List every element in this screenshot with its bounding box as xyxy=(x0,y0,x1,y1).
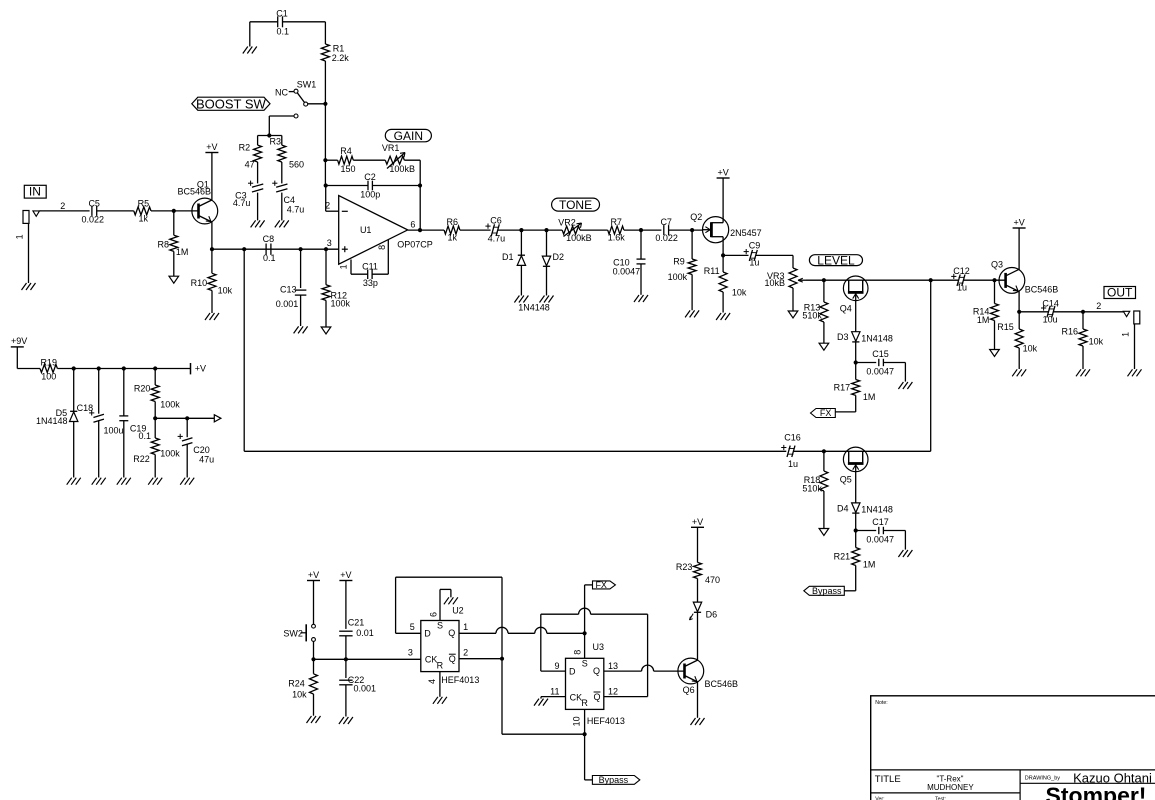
wire U2 R to ground xyxy=(439,672,441,697)
svg-text:1M: 1M xyxy=(176,247,189,257)
svg-text:R5: R5 xyxy=(138,198,150,208)
svg-text:R23: R23 xyxy=(676,562,693,572)
svg-text:Q: Q xyxy=(449,654,456,664)
flag TONE xyxy=(552,198,600,212)
svg-text:1N4148: 1N4148 xyxy=(861,505,893,515)
svg-text:D: D xyxy=(569,666,576,676)
capacitor C5 xyxy=(82,198,105,224)
svg-text:C7: C7 xyxy=(660,217,672,227)
svg-text:0.0047: 0.0047 xyxy=(866,534,894,544)
svg-text:R19: R19 xyxy=(40,357,57,367)
svg-text:1M: 1M xyxy=(863,559,876,569)
ground xyxy=(716,313,730,320)
label HEF4013 xyxy=(587,716,625,726)
wire 9V rail xyxy=(57,368,190,370)
svg-text:Q: Q xyxy=(448,628,455,638)
node R12 junction xyxy=(324,247,328,251)
wire Q1 emitter down xyxy=(211,222,213,249)
wire Q3 emitter down xyxy=(1018,291,1020,311)
ground xyxy=(205,313,219,320)
svg-text:560: 560 xyxy=(289,159,304,169)
wire U3 R stem xyxy=(584,709,586,734)
capacitor C10 xyxy=(613,230,646,295)
svg-text:0.1: 0.1 xyxy=(277,26,290,36)
svg-text:BC546B: BC546B xyxy=(178,186,212,196)
node C17 junction xyxy=(854,528,858,532)
wire R4 to VR1 xyxy=(353,159,385,161)
svg-text:Q3: Q3 xyxy=(991,259,1003,269)
svg-text:0.022: 0.022 xyxy=(82,215,105,225)
svg-text:C9: C9 xyxy=(749,241,761,251)
node Q5 branch junction xyxy=(929,278,933,282)
ground xyxy=(540,296,554,303)
svg-text:R22: R22 xyxy=(133,454,150,464)
svg-text:D3: D3 xyxy=(837,332,849,342)
wire C21 to clock rail xyxy=(345,636,347,660)
svg-text:100k: 100k xyxy=(160,400,180,410)
svg-text:R8: R8 xyxy=(157,239,169,249)
svg-text:0.0047: 0.0047 xyxy=(613,266,641,276)
svg-text:R3: R3 xyxy=(269,137,281,147)
ground xyxy=(1076,369,1090,376)
capacitor C7 xyxy=(655,217,678,243)
node C14 junction xyxy=(1017,310,1021,314)
wire 9V rail left xyxy=(17,368,40,370)
capacitor C14 xyxy=(1019,298,1059,324)
label HEF4013 xyxy=(441,675,479,685)
resistor R2 xyxy=(239,136,262,170)
ground xyxy=(294,326,308,333)
label 1N4148 xyxy=(518,302,550,312)
ground xyxy=(990,350,1000,357)
svg-text:C1: C1 xyxy=(276,9,288,19)
wire Q6 collector to D6 xyxy=(697,613,699,660)
svg-text:C14: C14 xyxy=(1042,298,1059,308)
flag Bypass xyxy=(592,775,639,785)
svg-text:Q5: Q5 xyxy=(840,475,852,485)
capacitor C8 xyxy=(263,234,276,263)
svg-text:10k: 10k xyxy=(1023,343,1038,353)
node C20 junction xyxy=(185,416,189,420)
svg-text:C16: C16 xyxy=(784,432,801,442)
wire U2 S to ground xyxy=(440,589,451,620)
flag GAIN xyxy=(385,129,431,143)
wire R5 to Q1 base xyxy=(151,210,199,212)
svg-text:OUT: OUT xyxy=(1107,285,1133,299)
resistor R19 xyxy=(40,357,57,381)
svg-text:0.1: 0.1 xyxy=(139,431,152,441)
svg-text:10k: 10k xyxy=(732,287,747,297)
svg-text:1M: 1M xyxy=(863,392,876,402)
node C13 junction xyxy=(299,247,303,251)
wire C1 left lead and ground drop xyxy=(250,22,278,47)
svg-text:C8: C8 xyxy=(263,234,275,244)
wire D2 to ground xyxy=(546,266,548,295)
wire R4 node down to C2 node xyxy=(324,160,326,185)
wire Q2 source down xyxy=(722,243,724,255)
svg-text:+V: +V xyxy=(340,570,351,580)
ground xyxy=(514,296,528,303)
resistor R22 xyxy=(133,418,180,477)
node C10 junction xyxy=(639,228,643,232)
diode D5 xyxy=(36,369,78,478)
pin 12 label xyxy=(608,686,618,696)
resistor R20 xyxy=(134,369,180,419)
svg-text:R2: R2 xyxy=(239,143,251,153)
svg-text:33p: 33p xyxy=(363,278,378,288)
node R9 junction xyxy=(690,228,694,232)
wire C6 to VR2 xyxy=(498,229,563,231)
svg-text:Q: Q xyxy=(593,666,600,676)
wire U3 CK to ground xyxy=(541,697,566,699)
pin 13 label xyxy=(608,661,618,671)
svg-text:R: R xyxy=(581,698,588,708)
svg-text:DRAWING_by: DRAWING_by xyxy=(1025,776,1060,782)
resistor R16 xyxy=(1061,312,1103,369)
svg-text:C20: C20 xyxy=(193,445,210,455)
svg-text:Q6: Q6 xyxy=(683,685,695,695)
node emitter junction xyxy=(210,247,214,251)
jack J2 output xyxy=(1120,311,1139,369)
wire U2 Q to FX node xyxy=(459,627,585,633)
resistor R1 xyxy=(321,43,349,63)
potentiometer VR2 xyxy=(558,218,591,244)
svg-text:+V: +V xyxy=(1013,218,1024,228)
svg-text:1N4148: 1N4148 xyxy=(36,416,68,426)
svg-text:10k: 10k xyxy=(1089,337,1104,347)
svg-text:R17: R17 xyxy=(834,383,851,393)
svg-text:C5: C5 xyxy=(88,198,100,208)
capacitor C6 xyxy=(485,216,505,244)
wire SW2 to clock rail xyxy=(313,641,315,659)
wire jack to C5 xyxy=(40,210,90,212)
resistor R18 xyxy=(802,451,828,528)
svg-text:10u: 10u xyxy=(1043,314,1058,324)
wire Q1 collector to +V xyxy=(211,153,213,201)
label Ver xyxy=(875,797,884,800)
power +V xyxy=(1013,218,1026,229)
svg-text:U1: U1 xyxy=(360,225,372,235)
svg-text:47: 47 xyxy=(245,159,255,169)
ground xyxy=(321,327,331,334)
title block frame xyxy=(871,696,1155,800)
svg-text:VR2: VR2 xyxy=(558,218,576,228)
svg-text:0.01: 0.01 xyxy=(356,628,374,638)
capacitor C21 xyxy=(339,618,374,639)
wire opamp output xyxy=(408,229,444,231)
wire R1 to SW1 node xyxy=(324,61,326,104)
ground xyxy=(1128,369,1142,376)
wire Q6 emitter to ground xyxy=(697,682,699,718)
wire C1 to R1 xyxy=(283,22,326,44)
capacitor C19 xyxy=(119,369,151,478)
pin 3 label xyxy=(327,238,332,248)
node C19 junction xyxy=(122,366,126,370)
wire feedback from C8 node xyxy=(244,249,786,451)
svg-text:C17: C17 xyxy=(872,517,889,527)
ground xyxy=(251,220,265,227)
flip-flop U2 xyxy=(421,605,464,671)
wire C9 left xyxy=(723,254,748,256)
svg-text:Bypass: Bypass xyxy=(599,775,629,785)
capacitor C11 xyxy=(351,240,388,288)
svg-text:Q: Q xyxy=(593,692,600,702)
svg-text:D4: D4 xyxy=(837,503,849,513)
svg-text:GAIN: GAIN xyxy=(394,129,423,143)
resistor R4 xyxy=(325,146,355,174)
wire LEVEL line xyxy=(806,279,958,281)
resistor R23 xyxy=(676,527,720,602)
transistor Q3 xyxy=(991,259,1058,294)
resistor R6 xyxy=(444,217,460,242)
op-amp U1 xyxy=(339,196,433,265)
flag LEVEL xyxy=(809,253,862,267)
ground xyxy=(67,478,81,485)
diode D1 xyxy=(502,230,526,265)
svg-text:R21: R21 xyxy=(834,552,851,562)
label T-Rex xyxy=(936,774,963,783)
transistor Q1 xyxy=(178,179,218,224)
svg-text:U2: U2 xyxy=(452,605,464,615)
ground xyxy=(534,699,548,706)
svg-text:S: S xyxy=(582,659,588,669)
svg-text:2.2k: 2.2k xyxy=(332,53,350,63)
node R2/R3 top junction xyxy=(258,133,282,137)
svg-text:0.001: 0.001 xyxy=(276,299,299,309)
svg-text:R24: R24 xyxy=(288,678,305,688)
capacitor C2 xyxy=(326,172,420,200)
svg-text:HEF4013: HEF4013 xyxy=(441,675,479,685)
wire Q2 drain to +V xyxy=(722,178,724,217)
svg-text:0.022: 0.022 xyxy=(655,233,678,243)
diode D3 xyxy=(837,332,893,344)
resistor R21 xyxy=(834,548,876,591)
svg-text:1u: 1u xyxy=(957,283,967,293)
ground xyxy=(169,276,179,283)
wire C16 to Q5 branch xyxy=(793,450,930,452)
node R13 junction xyxy=(822,278,826,282)
wire D4 to R21 node xyxy=(855,513,857,547)
svg-text:100k: 100k xyxy=(331,299,351,309)
node U3 R junction xyxy=(583,732,587,736)
ground xyxy=(275,220,289,227)
ground xyxy=(444,597,458,604)
resistor R17 xyxy=(834,380,876,412)
node R4 junction xyxy=(323,158,327,162)
switch SW1 xyxy=(275,80,325,107)
ground xyxy=(634,295,648,302)
pin 9 label xyxy=(554,661,559,671)
wire U3 Q to Q6 base xyxy=(604,665,685,671)
svg-text:TONE: TONE xyxy=(559,198,592,212)
wire C12 to Q3 base xyxy=(963,279,1005,281)
svg-text:0.1: 0.1 xyxy=(263,253,276,263)
svg-text:+V: +V xyxy=(692,517,703,527)
svg-text:1: 1 xyxy=(1120,332,1130,337)
ground xyxy=(22,283,36,290)
svg-text:2: 2 xyxy=(1096,301,1101,311)
capacitor C17 xyxy=(856,517,906,549)
resistor R15 xyxy=(997,312,1037,369)
transistor Q4 xyxy=(840,276,868,314)
jack J1 input xyxy=(15,211,40,284)
ground xyxy=(92,478,106,485)
resistor R9 xyxy=(668,230,696,310)
capacitor C22 xyxy=(339,659,376,716)
capacitor C18 xyxy=(77,369,124,478)
svg-text:D6: D6 xyxy=(706,610,718,620)
svg-text:NC: NC xyxy=(275,87,288,97)
capacitor C16 xyxy=(781,432,801,469)
svg-text:BC546B: BC546B xyxy=(1025,285,1059,295)
pin 6 label xyxy=(428,612,438,617)
capacitor C15 xyxy=(856,349,906,381)
svg-text:BC546B: BC546B xyxy=(705,679,739,689)
svg-text:+V: +V xyxy=(206,142,217,152)
svg-text:470: 470 xyxy=(705,575,720,585)
resistor R8 xyxy=(157,211,188,276)
ground xyxy=(1012,369,1026,376)
wire C9 to VR3 xyxy=(756,255,793,268)
svg-text:4.7u: 4.7u xyxy=(287,204,305,214)
svg-text:510k: 510k xyxy=(802,311,822,321)
svg-text:11: 11 xyxy=(550,686,559,696)
pin 2 label xyxy=(325,201,330,211)
svg-text:S: S xyxy=(437,621,443,631)
diode D6 LED xyxy=(690,602,718,620)
svg-text:100u: 100u xyxy=(104,425,124,435)
svg-text:R4: R4 xyxy=(340,146,352,156)
svg-text:1M: 1M xyxy=(977,315,990,325)
label Kazuo Ohtani xyxy=(1073,770,1152,785)
power Vref arrow xyxy=(214,415,221,422)
svg-text:VR1: VR1 xyxy=(382,143,400,153)
svg-text:R20: R20 xyxy=(134,384,151,394)
svg-text:1: 1 xyxy=(463,622,468,632)
svg-text:Bypass: Bypass xyxy=(812,586,842,596)
svg-text:8: 8 xyxy=(377,245,387,250)
wire U2 Qbar xyxy=(459,658,502,660)
svg-text:Test:: Test: xyxy=(935,797,946,800)
svg-text:47u: 47u xyxy=(199,455,214,465)
svg-text:100: 100 xyxy=(41,372,56,382)
svg-text:D: D xyxy=(424,629,431,639)
power +V xyxy=(717,168,730,179)
wire Bypass xyxy=(585,734,593,780)
svg-text:C11: C11 xyxy=(362,261,378,271)
pin 1 label xyxy=(463,622,468,632)
svg-text:4: 4 xyxy=(427,679,437,684)
power +V xyxy=(691,517,704,528)
resistor R11 xyxy=(704,255,747,312)
pin 2 label xyxy=(463,647,468,657)
svg-text:150: 150 xyxy=(340,164,355,174)
svg-text:1.6k: 1.6k xyxy=(608,232,626,242)
capacitor C12 xyxy=(951,266,970,293)
node C2 right junction xyxy=(418,183,422,187)
label DRAWING_by xyxy=(1025,776,1060,782)
ground xyxy=(898,550,912,557)
pin 8 label xyxy=(377,245,387,250)
node C15 junction xyxy=(854,360,858,364)
svg-text:FX: FX xyxy=(595,580,607,590)
wire SW1 node down to R4 node xyxy=(324,104,326,160)
svg-text:IN: IN xyxy=(29,185,41,199)
power +9V xyxy=(11,336,27,368)
svg-text:SW1: SW1 xyxy=(297,80,317,90)
svg-text:BOOST SW: BOOST SW xyxy=(196,96,267,111)
svg-text:C6: C6 xyxy=(490,216,502,226)
capacitor C9 xyxy=(744,241,761,268)
svg-text:0.001: 0.001 xyxy=(354,684,377,694)
capacitor C3 xyxy=(233,162,263,220)
svg-text:5: 5 xyxy=(410,622,415,632)
svg-text:3: 3 xyxy=(408,647,413,657)
svg-text:9: 9 xyxy=(554,661,559,671)
resistor R7 xyxy=(608,217,626,243)
node R16 junction xyxy=(1081,310,1085,314)
capacitor C20 xyxy=(178,418,215,477)
node C9 junction xyxy=(721,253,725,257)
svg-text:+9V: +9V xyxy=(11,336,27,346)
ground xyxy=(685,310,699,317)
svg-text:MUDHONEY: MUDHONEY xyxy=(927,783,974,792)
svg-text:C13: C13 xyxy=(280,284,297,294)
svg-text:R16: R16 xyxy=(1061,326,1078,336)
ground xyxy=(898,382,912,389)
svg-text:C2: C2 xyxy=(364,172,376,182)
wire R7 to C7 xyxy=(624,229,662,231)
node R14 junction xyxy=(992,278,996,282)
svg-text:6: 6 xyxy=(428,612,438,617)
svg-text:100kB: 100kB xyxy=(389,164,415,174)
pin 11 label xyxy=(550,686,559,696)
svg-text:100k: 100k xyxy=(160,448,180,458)
node C18 junction xyxy=(97,366,101,370)
svg-text:Q4: Q4 xyxy=(840,304,852,314)
resistor R5 xyxy=(134,198,151,223)
svg-text:3: 3 xyxy=(327,238,332,248)
svg-text:R7: R7 xyxy=(610,217,622,227)
svg-text:D2: D2 xyxy=(553,252,565,262)
svg-text:10k: 10k xyxy=(218,285,233,295)
svg-text:+V: +V xyxy=(195,364,206,374)
node D5 junction xyxy=(72,366,76,370)
switch SW2 xyxy=(283,624,315,641)
resistor R13 xyxy=(802,280,828,343)
svg-text:TITLE: TITLE xyxy=(875,774,901,785)
resistor R10 xyxy=(191,249,233,313)
power +V xyxy=(205,142,218,153)
wire +V to C21 xyxy=(345,581,347,629)
svg-text:100kB: 100kB xyxy=(566,233,592,243)
resistor R3 xyxy=(269,136,304,170)
svg-text:10kB: 10kB xyxy=(764,278,785,288)
node R8 junction xyxy=(172,209,176,213)
node Vref junction xyxy=(153,416,157,420)
ground xyxy=(433,697,447,704)
svg-text:R11: R11 xyxy=(704,266,720,276)
flip-flop U3 xyxy=(566,642,605,709)
pin 1 label xyxy=(338,264,348,269)
pin 5 label xyxy=(410,622,415,632)
svg-text:Ver:: Ver: xyxy=(875,797,884,800)
wire Vref xyxy=(155,417,214,419)
wire Q5 gate to D4 xyxy=(855,464,857,503)
node D1 junction xyxy=(519,228,523,232)
diode D2 xyxy=(542,230,564,266)
node C2 left junction xyxy=(324,183,328,187)
